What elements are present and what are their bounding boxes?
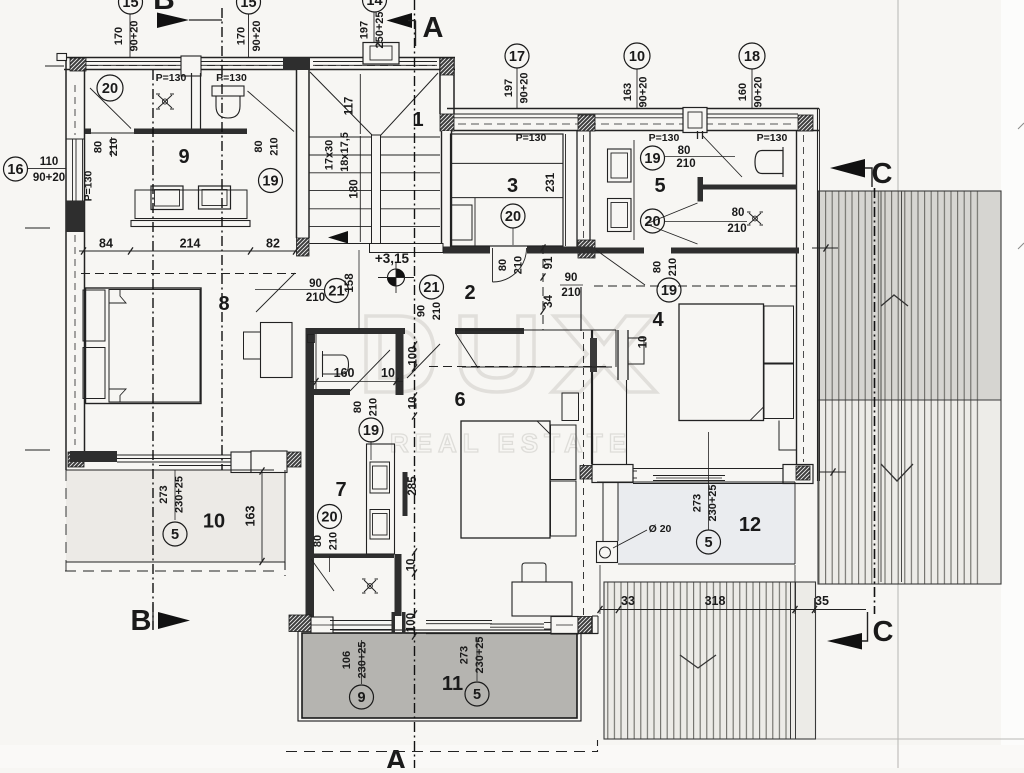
svg-text:20: 20 xyxy=(505,209,521,225)
svg-text:10: 10 xyxy=(406,559,418,572)
svg-text:A: A xyxy=(423,12,444,44)
wall pier xyxy=(289,615,311,632)
exterior wall right xyxy=(796,131,798,467)
window mullion block room9 top xyxy=(181,56,201,76)
exterior wall top-left band xyxy=(64,57,455,59)
circled 21 left + 90/210 + 158 xyxy=(325,279,349,303)
door room8 xyxy=(256,273,295,312)
wall bottom of rooms 5+bath xyxy=(593,248,644,254)
scan fold line xyxy=(897,0,899,768)
svg-text:20: 20 xyxy=(321,510,337,526)
svg-text:P=130: P=130 xyxy=(649,132,680,144)
svg-text:C: C xyxy=(872,158,893,190)
svg-text:230+25: 230+25 xyxy=(474,636,486,673)
svg-text:80: 80 xyxy=(352,401,364,413)
stair dim 180 xyxy=(359,136,361,242)
svg-text:P=130: P=130 xyxy=(216,72,247,84)
watermark DUX xyxy=(366,316,656,392)
svg-text:2: 2 xyxy=(464,282,475,304)
axis line left xyxy=(152,70,154,630)
bottom dashed boundary xyxy=(286,751,598,753)
svg-text:21: 21 xyxy=(423,280,439,296)
door swing top-left room xyxy=(90,88,131,129)
svg-text:16: 16 xyxy=(7,162,23,178)
mid bathroom washbasin box xyxy=(308,335,315,343)
svg-text:5: 5 xyxy=(654,175,665,197)
stairwell right wall xyxy=(439,58,441,114)
svg-text:5: 5 xyxy=(473,687,481,703)
room4 pillow 2 xyxy=(764,364,794,419)
top dim circles witness lines xyxy=(129,14,131,57)
shower symbol top-left room xyxy=(156,94,174,109)
svg-text:180: 180 xyxy=(349,179,361,198)
stair diagonal left xyxy=(310,72,373,136)
svg-text:A: A xyxy=(386,745,407,768)
room9 sofa xyxy=(135,190,247,219)
svg-text:80: 80 xyxy=(497,259,509,271)
door wc right xyxy=(703,136,743,178)
svg-text:214: 214 xyxy=(180,237,201,251)
svg-text:10: 10 xyxy=(638,336,650,349)
room8 bottom wall + window to terrace 10 xyxy=(70,451,117,462)
stair newel wall xyxy=(372,135,381,244)
room3 left wall (stair wall lower) xyxy=(442,131,452,247)
room8 pillow 1 xyxy=(83,290,105,341)
circled 21 right + 90/210 xyxy=(420,275,444,299)
svg-text:170: 170 xyxy=(235,27,247,45)
dim 163 terrace10 xyxy=(261,470,263,562)
shower symbol lower bathroom xyxy=(362,579,378,593)
door room5 to room4 xyxy=(596,250,645,285)
svg-text:250+25: 250+25 xyxy=(374,11,386,48)
svg-text:8: 8 xyxy=(218,293,229,315)
dim 80/210 room9 right + circled 19 xyxy=(259,169,283,193)
svg-text:90+20: 90+20 xyxy=(128,21,140,52)
terrace 12 floor xyxy=(618,482,795,564)
small ticks right edge xyxy=(1018,123,1024,129)
small leader marks left edge xyxy=(25,227,50,229)
pier top-left corner xyxy=(70,58,86,71)
svg-text:90+20: 90+20 xyxy=(251,21,263,52)
room6 pillow 2 xyxy=(551,481,577,536)
svg-text:10: 10 xyxy=(381,366,395,380)
stair diagonal right xyxy=(380,73,438,136)
svg-text:34: 34 xyxy=(543,295,555,308)
svg-text:80: 80 xyxy=(732,207,745,219)
circled 17 xyxy=(505,44,529,68)
svg-text:273: 273 xyxy=(158,485,170,503)
svg-text:B: B xyxy=(153,0,175,16)
svg-text:20: 20 xyxy=(644,214,660,230)
svg-text:90+20: 90+20 xyxy=(518,73,530,104)
svg-text:+3,15: +3,15 xyxy=(375,251,410,266)
marker C top xyxy=(830,159,865,178)
svg-text:82: 82 xyxy=(266,237,280,251)
stair dim 117 xyxy=(359,74,361,134)
svg-text:20: 20 xyxy=(102,81,118,97)
dim 80/210 room9 left w/circle20 xyxy=(97,75,123,101)
circled 20 kitchen + 80/210 xyxy=(318,505,342,529)
svg-text:B: B xyxy=(131,605,152,637)
svg-text:19: 19 xyxy=(644,151,660,167)
dashed beam room4 xyxy=(594,285,796,287)
svg-text:15: 15 xyxy=(240,0,256,11)
stair direction arrow xyxy=(328,231,348,244)
svg-text:90+20: 90+20 xyxy=(33,172,65,184)
room8 wardrobe right xyxy=(261,323,293,378)
circled 14 xyxy=(363,0,387,12)
svg-text:210: 210 xyxy=(512,256,524,274)
dim 160/10 mid bathroom xyxy=(310,381,403,383)
door mid bathroom xyxy=(350,350,390,391)
shower symbol bathroom right xyxy=(747,212,763,225)
svg-text:110: 110 xyxy=(40,156,59,168)
svg-text:15: 15 xyxy=(122,0,138,11)
svg-text:90+20: 90+20 xyxy=(637,77,649,108)
svg-text:273: 273 xyxy=(691,494,703,512)
svg-text:17x30: 17x30 xyxy=(324,140,336,171)
svg-text:80: 80 xyxy=(678,145,691,157)
svg-text:11: 11 xyxy=(442,673,463,695)
room3 pillow xyxy=(452,205,473,240)
circled 10 xyxy=(624,43,650,69)
svg-text:C: C xyxy=(873,616,894,648)
room4 nightstand xyxy=(628,338,644,364)
toilet bathroom right xyxy=(755,151,783,174)
svg-text:210: 210 xyxy=(561,287,580,299)
kitchen counter xyxy=(367,444,395,554)
svg-text:210: 210 xyxy=(108,138,120,156)
doors room6 nook xyxy=(407,344,440,378)
pier room6 bottom window xyxy=(578,617,592,634)
svg-text:9: 9 xyxy=(357,690,365,706)
stair tread R xyxy=(381,136,441,138)
svg-text:210: 210 xyxy=(676,158,695,170)
svg-text:14: 14 xyxy=(366,0,382,9)
room4 west wall stub xyxy=(580,287,582,331)
svg-text:P=130: P=130 xyxy=(516,132,547,144)
room4 pillow 1 xyxy=(764,306,794,363)
circled 19 room4 + 80/210 xyxy=(657,278,681,302)
door shower-room right (V) xyxy=(646,203,698,224)
dim 33/318/35 bottom xyxy=(600,609,866,611)
svg-text:163: 163 xyxy=(244,506,258,527)
toilet top-left room xyxy=(212,86,244,96)
svg-text:318: 318 xyxy=(705,594,726,608)
section line C xyxy=(874,188,876,614)
room4 closet lines xyxy=(779,421,797,451)
svg-text:285: 285 xyxy=(407,476,419,496)
terrace 11 floor (gray) xyxy=(302,633,577,718)
terrace12 labels xyxy=(697,530,721,554)
room8 double bed xyxy=(86,288,202,404)
circled 15 xyxy=(119,0,143,14)
door lower shower room xyxy=(311,559,334,591)
pier room3 bottom-right xyxy=(578,240,595,258)
exterior wall left xyxy=(65,58,67,471)
svg-text:19: 19 xyxy=(363,423,379,439)
terrace10 outline xyxy=(66,561,285,563)
svg-text:100: 100 xyxy=(406,613,418,632)
room6 desk + chair xyxy=(512,582,572,616)
room4 bottom wall xyxy=(592,465,633,483)
svg-text:9: 9 xyxy=(178,146,189,168)
svg-text:19: 19 xyxy=(661,283,677,299)
hatched terrace right (upper darker) xyxy=(818,191,1001,400)
room6 double bed xyxy=(461,421,550,538)
chimney block top (A axis) xyxy=(363,43,399,65)
room4 double bed xyxy=(679,304,764,421)
svg-text:90: 90 xyxy=(309,278,322,290)
faint extension line bottom right xyxy=(816,738,1024,740)
svg-text:231: 231 xyxy=(545,172,557,192)
ramp direction lines + chevrons right terrace xyxy=(880,191,882,582)
bathroom partition wall (wc/shower) xyxy=(703,185,797,190)
terrace 10 floor xyxy=(66,470,285,562)
window P=130 left wall xyxy=(72,139,74,201)
dashed wall stub corridor right xyxy=(542,245,544,330)
left wall small step top corner xyxy=(57,54,67,61)
svg-text:210: 210 xyxy=(306,292,325,304)
stair bottom landing xyxy=(370,244,444,253)
svg-text:5: 5 xyxy=(704,535,712,551)
svg-text:Ø 20: Ø 20 xyxy=(649,523,672,535)
wall between rooms 9/8 (dashed) xyxy=(81,273,296,275)
mid bathroom right wall xyxy=(396,329,404,395)
chimney block top-right (room5/wc) xyxy=(683,108,707,133)
terrace10 labels xyxy=(163,522,187,546)
svg-text:197: 197 xyxy=(358,21,370,39)
svg-text:100: 100 xyxy=(408,346,420,365)
door swing wc top-left xyxy=(248,91,295,132)
svg-text:18: 18 xyxy=(744,49,760,65)
svg-text:210: 210 xyxy=(268,137,280,155)
dim 231 room3 xyxy=(565,134,567,246)
circled 15b xyxy=(237,0,261,14)
svg-text:197: 197 xyxy=(503,79,515,97)
wall pier xyxy=(440,114,454,131)
door room3 (arc) xyxy=(492,248,494,282)
pier stair right top xyxy=(440,58,454,75)
stair tread L xyxy=(310,136,372,138)
pier room6 bottom-right xyxy=(580,466,592,480)
svg-text:6: 6 xyxy=(454,389,465,411)
pier stair left bottom xyxy=(297,238,310,256)
svg-text:5: 5 xyxy=(171,527,179,543)
section line A (vertical) xyxy=(414,0,416,768)
circled 20 room3 xyxy=(501,204,525,228)
svg-text:10: 10 xyxy=(203,511,225,533)
shower room right wall xyxy=(395,554,402,616)
exterior wall top-right band xyxy=(447,108,819,110)
kitchen/shower-room partition xyxy=(311,554,394,559)
svg-text:90: 90 xyxy=(415,305,427,317)
room3 beds xyxy=(451,134,564,246)
room8 pillow 2 xyxy=(83,348,105,399)
marker A top xyxy=(387,13,413,28)
svg-text:91: 91 xyxy=(543,256,555,269)
circled 20 room5 xyxy=(641,209,665,233)
terrace11 labels xyxy=(350,685,374,709)
wall bottom of room 3 xyxy=(443,247,490,254)
svg-text:80: 80 xyxy=(92,141,104,153)
dim 84/214/82 room9 xyxy=(79,250,297,252)
svg-text:21: 21 xyxy=(328,284,344,300)
svg-text:210: 210 xyxy=(431,302,443,320)
terrace12 outline xyxy=(597,481,795,483)
svg-text:12: 12 xyxy=(739,514,761,536)
svg-text:P=130: P=130 xyxy=(156,72,187,84)
room6 pillow 1 xyxy=(551,425,577,480)
room3/room5 divider wall xyxy=(576,131,578,247)
terrace10 dashed boundary xyxy=(65,570,277,572)
svg-text:4: 4 xyxy=(652,309,664,331)
terrace12 drain xyxy=(597,542,618,563)
stairwell left wall xyxy=(297,58,310,238)
corridor nook band room6 xyxy=(456,329,616,331)
circled 16 + dim 110/90+20 xyxy=(4,157,28,181)
svg-text:18x17,5: 18x17,5 xyxy=(339,132,351,172)
svg-text:210: 210 xyxy=(667,258,679,276)
mid bathroom bottom wall xyxy=(306,389,350,395)
room5 wardrobe xyxy=(608,149,632,182)
svg-text:P=130: P=130 xyxy=(83,171,95,202)
circled 19 room5 xyxy=(641,146,665,170)
svg-text:170: 170 xyxy=(113,27,125,45)
svg-text:210: 210 xyxy=(727,223,746,235)
svg-text:160: 160 xyxy=(737,83,749,101)
svg-text:163: 163 xyxy=(622,83,634,101)
partition between shower/wc rooms top-left xyxy=(191,73,193,130)
svg-text:210: 210 xyxy=(327,532,339,550)
marker C bottom xyxy=(827,633,862,650)
svg-text:3: 3 xyxy=(507,175,518,197)
room5/bathroom divider wall xyxy=(697,131,699,139)
svg-text:10: 10 xyxy=(629,49,645,65)
svg-text:33: 33 xyxy=(621,594,635,608)
svg-text:19: 19 xyxy=(262,174,278,190)
svg-text:273: 273 xyxy=(458,646,470,664)
svg-text:106: 106 xyxy=(341,651,353,669)
svg-text:230+25: 230+25 xyxy=(356,641,368,678)
svg-text:90+20: 90+20 xyxy=(752,77,764,108)
kitchen left wall xyxy=(306,328,315,627)
pier room8 bottom-right xyxy=(287,452,301,467)
svg-text:80: 80 xyxy=(651,261,663,273)
terrace12 drain pipes xyxy=(602,483,604,541)
chevron bottom terrace xyxy=(680,655,716,668)
pier left-bottom xyxy=(68,452,84,467)
svg-text:35: 35 xyxy=(815,594,829,608)
svg-text:7: 7 xyxy=(335,479,346,501)
mid bathroom toilet xyxy=(323,355,349,374)
wall pier xyxy=(578,115,595,131)
bottom wall of top-left rooms xyxy=(85,129,91,135)
circled 18 xyxy=(739,43,765,69)
pier room4 bottom-right xyxy=(796,466,810,480)
svg-text:P=130: P=130 xyxy=(757,132,788,144)
room6 nightstand xyxy=(562,393,579,421)
level marker symbol xyxy=(388,269,405,286)
bottom wall room6 + window xyxy=(426,620,492,622)
dashed beam corridor/room6 xyxy=(429,366,611,368)
svg-text:84: 84 xyxy=(99,237,113,251)
hatched terrace bottom xyxy=(604,582,816,739)
room6/room4 divider xyxy=(591,330,593,464)
solid wall chunk left xyxy=(66,201,85,232)
section line B upper xyxy=(221,8,223,470)
svg-text:117: 117 xyxy=(344,97,356,116)
svg-text:158: 158 xyxy=(344,273,356,293)
wall pier xyxy=(798,115,813,131)
svg-text:160: 160 xyxy=(334,366,355,380)
svg-text:17: 17 xyxy=(509,49,525,65)
svg-text:210: 210 xyxy=(367,398,379,416)
svg-text:80: 80 xyxy=(312,535,324,547)
svg-text:80: 80 xyxy=(253,140,265,152)
corridor/bath middle top wall xyxy=(313,328,405,334)
svg-text:REAL ESTATE: REAL ESTATE xyxy=(390,428,632,458)
svg-text:90: 90 xyxy=(565,272,578,284)
